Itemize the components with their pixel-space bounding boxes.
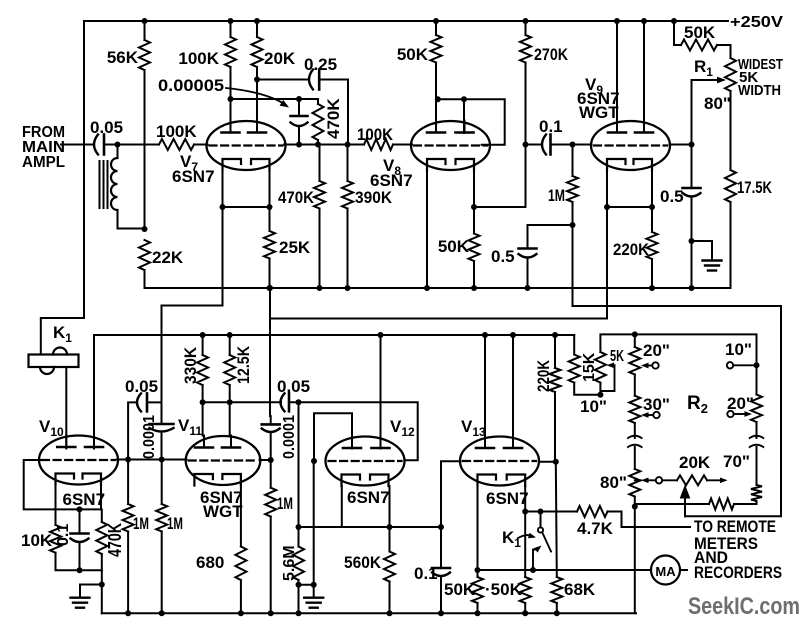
resistor 560K <box>384 552 395 582</box>
capacitor 0.1 top <box>542 135 551 155</box>
wire 0.1 right <box>551 144 592 146</box>
label 100K plate V7 <box>178 49 219 68</box>
label 5K R2 <box>610 348 624 365</box>
svg-text:+250V: +250V <box>730 14 783 31</box>
wire 0.5 V8 leads <box>527 225 529 288</box>
wire 470K lower leads <box>319 145 321 289</box>
label METERS <box>694 534 758 553</box>
wire 1M leads <box>572 145 574 226</box>
wire terminal to 20K <box>662 479 677 481</box>
wire pot to 17.5K <box>730 91 732 170</box>
label AND <box>694 548 728 567</box>
node 0.1 V13 rail <box>438 610 444 616</box>
node V9 cath left <box>604 204 610 210</box>
wire 5K bottom <box>599 383 601 395</box>
wire chain a <box>634 334 636 395</box>
node V8 plate right <box>461 96 467 102</box>
svg-text:V13: V13 <box>461 417 486 439</box>
node rail-50K V8 <box>433 18 439 24</box>
label K1 <box>53 323 72 345</box>
capacitor 0.0001 a <box>150 424 174 432</box>
wire feedback down <box>573 225 782 516</box>
node 0.1 V13 top <box>438 524 444 530</box>
resistor 20K pot <box>677 475 707 485</box>
svg-text:0.00005: 0.00005 <box>158 76 224 95</box>
node 10in b <box>754 362 760 368</box>
wire K1 label arrow <box>518 533 536 539</box>
resistor 70in <box>751 485 762 501</box>
label 100K grid V7 <box>156 122 197 141</box>
node 100K-0.00005 <box>228 96 234 102</box>
svg-text:220K: 220K <box>534 359 553 392</box>
svg-text:WIDTH: WIDTH <box>738 82 781 99</box>
wire chain to bottom rail <box>634 507 636 614</box>
node 50K a rail <box>475 610 481 616</box>
wire left vertical from rail to K1 branch <box>83 21 85 318</box>
terminal 80in <box>641 477 662 483</box>
node V9 grid <box>689 142 695 148</box>
node 80in bottom <box>632 504 638 510</box>
resistor 50K R1 <box>681 40 717 51</box>
wire 0.05 a left <box>128 402 137 459</box>
tube V13 6SN7 <box>460 436 539 486</box>
label V9 6SN7 <box>577 89 620 108</box>
wire 330K leads <box>202 335 204 402</box>
resistor 470K lower <box>314 181 325 209</box>
svg-text:MA: MA <box>655 564 676 579</box>
wire 50K to pot <box>717 45 731 58</box>
wire V9 cathode left <box>606 171 608 208</box>
wire lower rail left <box>94 335 574 449</box>
svg-text:10": 10" <box>725 340 752 359</box>
capacitor 0.25 <box>309 70 319 90</box>
node 220K rail <box>649 285 655 291</box>
svg-text:V11: V11 <box>178 416 202 438</box>
node 50K b rail <box>522 610 528 616</box>
svg-text:0.05: 0.05 <box>90 118 123 137</box>
svg-text:20K: 20K <box>264 49 296 68</box>
wire 560K leads <box>389 527 391 613</box>
wire 15K drop <box>573 335 575 355</box>
svg-text:WGT: WGT <box>203 502 243 521</box>
label 1M top <box>548 186 565 205</box>
resistor 50K plate V8 <box>431 35 442 63</box>
wire 50K a bottom <box>477 603 479 613</box>
resistor 68K <box>551 577 562 603</box>
wire 270K to cathode node <box>474 63 526 208</box>
svg-text:17.5K: 17.5K <box>737 178 773 197</box>
node 560K rail <box>387 610 393 616</box>
node 1M b rail <box>159 610 165 616</box>
wire 100K to V7 grid <box>194 144 208 146</box>
terminal 20in <box>641 362 659 368</box>
resistor 22K <box>139 240 150 270</box>
node V9 cath right <box>649 204 655 210</box>
node 0.25 out <box>345 142 351 148</box>
wire grid bus <box>117 459 187 461</box>
wire 470K bottom lead <box>317 99 319 145</box>
svg-text:V10: V10 <box>39 417 64 439</box>
wire 100K to plate <box>230 67 232 132</box>
label TO REMOTE <box>694 517 776 536</box>
tube V7 6SN7 <box>207 121 286 171</box>
node 470K V10 mid <box>99 582 105 588</box>
node 560K top <box>387 524 393 530</box>
wire L2 vertical 270 <box>269 288 271 416</box>
wire K1 to V10 plate <box>65 367 67 449</box>
svg-text:100K: 100K <box>156 122 197 141</box>
node lower rail 220K <box>552 332 558 338</box>
label R1 <box>694 57 713 79</box>
node V13 cath right <box>522 509 528 515</box>
label 470K lower <box>278 188 315 207</box>
tube V11 6SN7 WGT <box>186 436 261 486</box>
wire 22K to rail A <box>145 270 731 288</box>
svg-text:220K: 220K <box>613 240 650 259</box>
wire V8 plate tie <box>438 99 505 145</box>
label 70in <box>723 452 750 471</box>
label 1M a <box>133 514 149 533</box>
capacitor 0.05 a <box>137 393 147 411</box>
svg-text:270K: 270K <box>534 45 569 64</box>
svg-text:0.1: 0.1 <box>414 564 438 583</box>
wire ground jog V12 <box>299 584 314 586</box>
label 0.00005 <box>158 76 224 95</box>
resistor 1M c <box>265 488 276 517</box>
resistor 1M b <box>156 504 167 532</box>
node 330K bottom <box>200 399 206 405</box>
label 6SN7 V11 <box>200 488 243 507</box>
resistor 20in <box>629 347 640 375</box>
node 5.6M mid <box>296 582 302 588</box>
resistor 20in b <box>751 395 762 423</box>
node 5.6M top <box>296 524 302 530</box>
label 25K <box>279 238 311 257</box>
svg-text:0.5: 0.5 <box>660 187 684 206</box>
resistor 680 <box>235 547 246 581</box>
label +250V <box>730 14 783 31</box>
svg-text:6SN7: 6SN7 <box>172 167 215 186</box>
svg-text:56K: 56K <box>107 48 139 67</box>
wire 5.6M leads <box>298 527 300 613</box>
wire 50K R1 lead <box>674 21 681 45</box>
wire 68K column <box>556 462 557 577</box>
wiper 20K <box>680 485 691 517</box>
wire K1 feed <box>41 318 84 355</box>
svg-text:6SN7: 6SN7 <box>63 490 106 509</box>
svg-text:10K: 10K <box>21 531 53 550</box>
svg-text:6SN7: 6SN7 <box>486 489 529 508</box>
wire 0.1 left <box>526 144 543 146</box>
wire 220K lower top <box>554 335 556 368</box>
tube V8 6SN7 <box>411 121 490 171</box>
node 1M c rail <box>268 610 274 616</box>
svg-text:68K: 68K <box>564 580 596 599</box>
label 0.25 <box>304 55 337 74</box>
wire 10K bottom <box>56 553 80 571</box>
label 0.05 a <box>125 377 158 396</box>
svg-text:RECORDERS: RECORDERS <box>694 563 782 582</box>
wire V11 cath <box>240 485 242 547</box>
label 10in tap <box>580 397 607 416</box>
label 80in <box>600 473 627 492</box>
svg-text:0.1: 0.1 <box>55 524 72 546</box>
relay K1 coil box <box>29 355 79 368</box>
resistor R2 bottom <box>709 499 734 510</box>
wire V9 cath right lead <box>651 171 653 208</box>
wire V13 plate leads <box>485 335 513 448</box>
node 390K rail <box>345 285 351 291</box>
wire V11 plate leads <box>203 402 230 435</box>
label V13 <box>461 417 486 439</box>
label V11 <box>178 416 202 438</box>
svg-text:K1: K1 <box>502 528 521 550</box>
label 390K <box>355 188 393 207</box>
node K1 arm <box>530 567 536 573</box>
wire 5K wiper <box>600 362 614 391</box>
wire V8 right plate lead <box>463 99 465 133</box>
node 20K-0.25 <box>254 77 260 83</box>
wire 0.25 right to grid node <box>319 80 348 145</box>
label 0.1 top <box>539 117 563 136</box>
label V12 <box>390 417 415 439</box>
wire 1M c leads <box>270 460 272 613</box>
wire +250V top rail <box>84 20 728 22</box>
label 6SN7 V13 <box>486 489 529 508</box>
svg-text:0.0001: 0.0001 <box>281 415 298 459</box>
svg-text:0.05: 0.05 <box>125 377 158 396</box>
label 80in R1 <box>704 94 731 113</box>
label 0.0001 a <box>141 415 158 459</box>
node grid bus a <box>125 457 131 463</box>
capacitor 0.1 V10 <box>71 534 89 543</box>
node lower rail V13 right <box>510 332 516 338</box>
wire ground jog V10 <box>80 585 102 598</box>
svg-text:70": 70" <box>723 452 750 471</box>
node rail V9 left <box>614 18 620 24</box>
resistor 50K cathode V8 <box>469 234 480 262</box>
node 270K grid node <box>523 142 529 148</box>
wire V7 cathode to lower section <box>162 207 223 402</box>
svg-text:4.7K: 4.7K <box>577 519 614 538</box>
svg-text:12.5K: 12.5K <box>234 345 253 384</box>
label 50K plate V8 <box>397 45 429 64</box>
resistor 5.6M <box>293 547 304 581</box>
wire 68K bottom <box>556 603 558 613</box>
terminal 30in <box>641 412 660 418</box>
wire V13 cath left <box>477 486 479 577</box>
node 470K lower rail <box>317 285 323 291</box>
inductor input coil <box>111 158 118 210</box>
label RECORDERS <box>694 563 782 582</box>
wire plate wire V11 <box>203 401 281 403</box>
wire V11 grid right <box>260 459 271 461</box>
node 1M a rail <box>125 610 131 616</box>
label V9 WGT <box>579 103 619 122</box>
svg-text:50K: 50K <box>438 237 470 256</box>
wire V12 cath left <box>341 486 343 527</box>
wire 20K right arrow <box>707 477 728 483</box>
label V8 6SN7 <box>370 171 413 190</box>
node 0.1 V10 top <box>77 506 83 512</box>
capacitor 0.1 V13 <box>432 568 450 576</box>
wire R2 bottom left <box>635 503 709 505</box>
svg-text:20K: 20K <box>679 453 711 472</box>
node rail-20K <box>254 18 260 24</box>
label 0.5 V8 <box>491 247 515 266</box>
node 68K rail <box>554 610 560 616</box>
wire 0.05 b out right <box>289 402 418 460</box>
label 6SN7 V10 <box>63 490 106 509</box>
resistor 20K <box>252 37 263 67</box>
svg-text:WGT: WGT <box>579 103 619 122</box>
wire V7 grid node line <box>284 144 364 146</box>
wire V9 grid right <box>670 144 692 146</box>
label 20K pot <box>679 453 711 472</box>
wire L2 line <box>270 318 605 320</box>
wire V13 cath right <box>524 486 526 577</box>
svg-text:SeekIC.com: SeekIC.com <box>688 593 800 620</box>
wire cathode wire V12 <box>299 526 442 528</box>
wire chain b <box>634 423 636 438</box>
capacitor 0.5 V8 <box>519 249 537 258</box>
node 25K down <box>267 285 273 291</box>
tube V12 6SN7 <box>326 436 405 486</box>
svg-text:1M: 1M <box>277 494 293 513</box>
svg-text:100K: 100K <box>357 125 394 144</box>
svg-text:6SN7: 6SN7 <box>347 488 390 507</box>
wire 50K to plate node <box>435 63 437 132</box>
node input <box>115 142 121 148</box>
node 680 rail <box>238 610 244 616</box>
relay K1 coil arc top <box>53 348 67 355</box>
node chain top <box>632 331 638 337</box>
resistor 220K lower <box>550 368 561 392</box>
resistor 25K <box>264 231 275 259</box>
wire 56K top lead <box>144 21 146 40</box>
label 6SN7 V12 <box>347 488 390 507</box>
wire 100K top lead <box>230 21 232 37</box>
label 0.05 input <box>90 118 123 137</box>
potentiometer R1 5K <box>725 58 736 91</box>
node 0.1 out <box>570 142 576 148</box>
node rail-270K <box>523 18 529 24</box>
node 56K-coil-22K <box>142 226 148 232</box>
node 0.1 V10 bottom <box>77 567 83 573</box>
wire 0.00005 top lead <box>298 99 300 116</box>
node 470K bottom <box>315 142 321 148</box>
wire 0.25 left <box>257 79 309 81</box>
label 17.5K <box>737 178 773 197</box>
wire V12 cath right <box>389 486 391 527</box>
wire V8 cathode right <box>473 171 475 208</box>
resistor 50K a <box>472 577 483 603</box>
watermark SeekIC.com <box>688 593 800 620</box>
wire chain c <box>634 447 636 469</box>
node V8 cath right <box>471 204 477 210</box>
wire V10 cath right <box>100 485 102 509</box>
wire to V8 grid <box>393 144 412 146</box>
label 20K <box>264 49 296 68</box>
wire V12 grid ground line <box>313 461 315 598</box>
label 30in <box>643 395 670 414</box>
wire chain d <box>756 365 758 438</box>
wire 0.5 V9 leads <box>691 145 693 289</box>
resistor 17.5K <box>725 170 736 202</box>
svg-text:50K: 50K <box>684 23 716 42</box>
capacitor 0.05 input <box>94 135 104 155</box>
wire V13 grid right <box>539 461 556 463</box>
wire V8 cathode left to rail <box>426 171 428 289</box>
label 4.7K <box>577 519 614 538</box>
svg-text:50K: 50K <box>397 45 429 64</box>
svg-text:80": 80" <box>600 473 627 492</box>
wire 80in bottom <box>634 497 636 507</box>
resistor 12.5K <box>224 355 235 385</box>
label 220K top <box>613 240 650 259</box>
label WIDTH <box>738 82 781 99</box>
node 50K cath rail <box>471 285 477 291</box>
wire 12.5K leads <box>229 335 231 402</box>
label 5K R1 <box>739 69 758 86</box>
wire 220K lower bottom <box>554 392 556 462</box>
resistor 100K coupling V8 <box>364 139 393 150</box>
tube V10 6SN7 <box>39 435 118 485</box>
wire 20K to plate <box>256 67 258 132</box>
wire 4.7K out <box>608 512 691 528</box>
switch K1 fixed contact <box>538 527 543 532</box>
wire 0.00005 bottom lead <box>298 128 300 145</box>
resistor 220K top <box>647 232 658 259</box>
label 5.6M <box>281 545 298 581</box>
resistor 1M top <box>567 176 578 202</box>
resistor 15K <box>569 355 580 383</box>
wire 56K bottom lead <box>144 70 146 229</box>
label 10in b <box>725 340 752 359</box>
svg-text:AMPL: AMPL <box>22 154 65 171</box>
node rail V9 right <box>641 18 647 24</box>
label 20in <box>643 341 670 360</box>
wire 1M b leads <box>161 460 163 614</box>
node V13 grid <box>553 459 559 465</box>
node 1M bottom <box>570 222 576 228</box>
svg-text:680: 680 <box>196 553 224 572</box>
wire V7 cathode left <box>222 171 224 208</box>
node V8 cath rail <box>424 285 430 291</box>
wire 4.7K wire <box>525 511 577 513</box>
wire meter line <box>478 569 652 571</box>
resistor 4.7K <box>577 506 608 517</box>
wire arrow 0.00005 <box>226 88 289 108</box>
wire V9 cathode to L2 <box>270 207 607 319</box>
svg-text:R2: R2 <box>687 393 708 416</box>
svg-text:1M: 1M <box>167 514 183 533</box>
label 12.5K <box>234 345 253 384</box>
svg-text:0.5: 0.5 <box>491 247 515 266</box>
label 1M b <box>167 514 183 533</box>
node rail-50K R1 <box>671 18 677 24</box>
resistor 50K b <box>520 577 531 603</box>
svg-text:0.05: 0.05 <box>277 377 310 396</box>
wire 15K bottom <box>574 383 600 395</box>
node 12.5K bottom <box>227 399 233 405</box>
label WIDEST <box>738 56 783 73</box>
label 68K <box>564 580 596 599</box>
svg-text:560K: 560K <box>344 553 382 572</box>
node 5K bottom <box>597 392 603 398</box>
svg-text:390K: 390K <box>355 188 393 207</box>
node lower rail 12.5K <box>227 332 233 338</box>
